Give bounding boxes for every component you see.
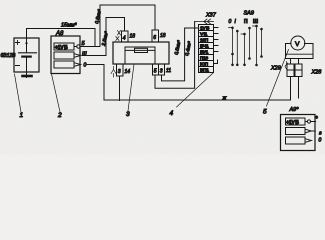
svg-text:Х28: Х28 [311,70,323,76]
svg-text:18: 18 [130,34,136,40]
svg-text:А8: А8 [55,31,64,37]
battery GB1 box [14,38,39,72]
connector X37 row 8 [199,67,214,73]
pin X28 down wire [298,77,300,99]
svg-text:5: 5 [263,109,267,116]
connector X37 row 5 [199,49,214,55]
leader to number 2 [52,74,61,112]
terminal 3 box [117,64,124,76]
battery terminal dot [25,42,27,44]
terminal 4 plug symbol [116,31,121,41]
svg-text:0: 0 [319,138,322,144]
A9* slot 1 [286,118,306,125]
ground wire zh from slot 0 down and across [104,65,291,101]
svg-text:ВП1: ВП1 [200,68,209,74]
svg-text:1: 1 [20,112,24,119]
device 3 outer box [113,42,169,64]
svg-text:14: 14 [125,69,131,75]
block 2 slot 1 [54,43,74,50]
svg-text:3: 3 [126,111,130,118]
A9* slot 2 pin arrow [305,129,311,133]
svg-text:П: П [244,19,248,25]
leader to number 4 [177,73,214,107]
battery ground bar [23,75,32,78]
connector X37 plug symbol [195,19,214,24]
connector X37 row 3 [199,37,214,43]
battery plus sign [16,41,20,45]
connector X37 row 4 [199,43,214,49]
wire terminal 3b to connector X37 row1 [162,28,199,81]
battery short plate [22,55,30,57]
connector X37 row 7 [199,61,214,67]
A9* slot 1 socket circle [305,121,307,123]
wire battery plus to block 2 slot B (15mm2) [27,29,96,47]
svg-text:3: 3 [118,69,121,75]
connector block 2 (AB) [51,36,80,74]
battery internal wire top [26,38,28,53]
svg-text:ж: ж [222,96,227,102]
svg-text:Х37: Х37 [205,12,217,18]
svg-text:18: 18 [160,33,166,39]
svg-text:+1ѴБ: +1ѴБ [55,45,68,51]
svg-text:+1ѴБ: +1ѴБ [286,120,299,126]
switch SA9 column 1 [229,27,233,66]
A9* slot 3 [286,137,306,144]
wire terminal 3 to ground wire [119,76,121,101]
terminal 4 box [122,31,129,42]
connector A9* box [281,115,316,151]
wire terminal 5 to connector X37 plug line [155,22,195,89]
A9* slot 3 pin arrow [305,139,311,143]
block 2 slot 1 socket circle [74,46,77,48]
svg-text:V: V [295,41,300,48]
svg-text:0: 0 [229,19,232,25]
switch SA9 column 6 [261,29,263,58]
device 3 inner box [125,47,155,64]
block 2 slot 2 pin arrow [74,54,81,58]
svg-text:2: 2 [57,112,62,119]
svg-text:А9*: А9* [289,107,300,113]
block 2 slot 2 [54,52,74,59]
svg-text:15мм²: 15мм² [61,23,77,29]
switch SA9 column 4 [249,28,251,60]
battery internal wire bottom [26,58,28,78]
svg-text:SA9: SA9 [244,11,254,17]
block 2 slot 3 pin arrow [74,63,81,67]
terminal 3b box [159,64,165,75]
svg-text:в: в [319,131,322,137]
svg-text:6: 6 [153,35,156,41]
svg-text:4: 4 [123,36,126,42]
connector X29 plug [287,59,294,77]
svg-text:6В12В: 6В12В [1,53,17,59]
terminal 3 plug symbol [111,67,116,78]
svg-text:4: 4 [170,110,174,117]
switch SA9 column 2 [236,31,238,66]
connector X28 plug [295,59,302,77]
svg-text:11: 11 [166,68,171,74]
svg-text:Ш: Ш [253,19,258,25]
svg-text:0: 0 [84,63,87,69]
voltmeter PV circle [291,36,305,50]
connector X37 row 2 [199,31,214,37]
leader to number 5 [267,50,289,107]
wire 2.5mm2 from slot Sh up to terminal 4 [106,18,125,56]
A9* slot 2 [286,128,306,135]
fuse FU [135,48,148,52]
switch SA9 column 5 [253,26,257,66]
paper texture [0,0,325,155]
switch SA9 column 3 [241,34,245,66]
terminal 5 box [153,64,159,75]
leader to number 3 [128,64,134,111]
connector X37 row 6 [199,55,214,61]
leader to number 1 [15,74,22,112]
battery minus sign [16,65,20,67]
connector X37 row 1 [199,25,214,31]
svg-text:Х29: Х29 [270,66,281,72]
block 2 slot 3 [54,61,74,68]
wire 0.5mm2 from slot B junction up and over to terminal 6 [100,5,155,47]
terminal 6 box [152,30,159,42]
svg-text:Ш: Ш [82,52,87,58]
svg-text:3: 3 [160,69,163,75]
connector X28/X29 housing [286,44,314,59]
battery long plate [19,52,37,54]
svg-text:5: 5 [154,69,157,75]
